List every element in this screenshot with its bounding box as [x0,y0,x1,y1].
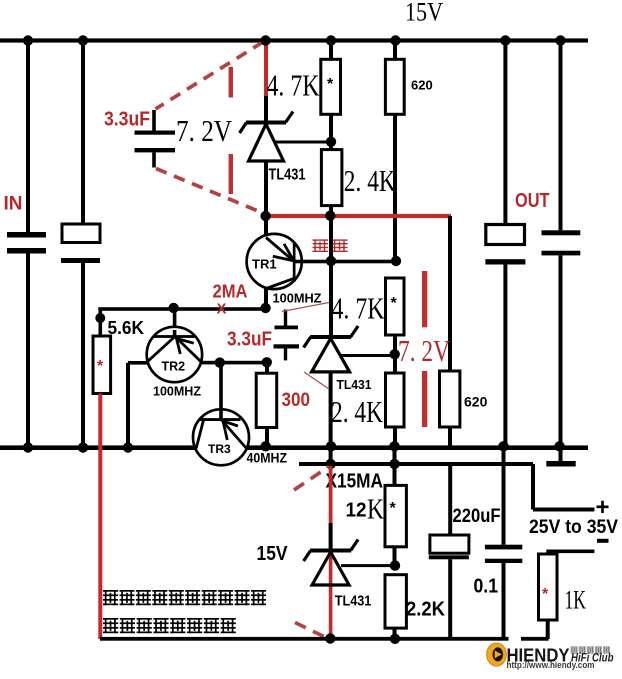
svg-text:X15MA: X15MA [326,471,384,493]
svg-text:0.1: 0.1 [474,576,499,598]
svg-text:3.3uF: 3.3uF [227,328,272,350]
svg-text:TR1: TR1 [252,257,277,272]
svg-text:OUT: OUT [515,190,550,212]
svg-text:2. 4K: 2. 4K [331,394,383,429]
svg-text:http://www.hiendy.com: http://www.hiendy.com [507,660,595,670]
svg-text:12: 12 [346,500,367,522]
svg-text:TL431: TL431 [269,167,306,184]
svg-text:4. 7K: 4. 7K [267,68,320,103]
svg-text:TR2: TR2 [162,360,186,374]
svg-text:15V: 15V [405,0,443,27]
svg-text:*: * [97,358,104,375]
svg-text:40MHZ: 40MHZ [247,451,288,466]
svg-text:2. 4K: 2. 4K [344,163,396,198]
svg-text:*: * [327,76,334,93]
svg-text:100MHZ: 100MHZ [273,291,322,306]
svg-text:*: * [391,295,398,312]
svg-text:620: 620 [411,78,433,93]
svg-text:*: * [542,586,549,603]
svg-text:300: 300 [282,390,311,411]
svg-text:220uF: 220uF [453,506,501,527]
svg-text:7. 2V: 7. 2V [398,333,450,368]
svg-text:X: X [217,301,227,318]
svg-text:1K: 1K [565,586,587,615]
svg-text:15V: 15V [257,543,289,565]
svg-text:5.6K: 5.6K [108,317,145,338]
svg-text:4. 7K: 4. 7K [332,291,385,326]
svg-text:TL431: TL431 [335,594,372,610]
svg-text:7. 2V: 7. 2V [176,113,232,148]
svg-text:*: * [390,500,397,517]
svg-text:100MHZ: 100MHZ [153,384,201,399]
svg-text:3.3uF: 3.3uF [104,109,150,131]
svg-text:K: K [367,495,384,526]
svg-text:2MA: 2MA [213,282,248,302]
svg-text:620: 620 [464,394,488,410]
svg-text:2.2K: 2.2K [406,599,446,621]
svg-text:TR3: TR3 [208,442,231,456]
svg-text:IN: IN [4,194,23,215]
svg-text:TL431: TL431 [337,377,372,392]
svg-text:25V to 35V: 25V to 35V [529,517,618,538]
